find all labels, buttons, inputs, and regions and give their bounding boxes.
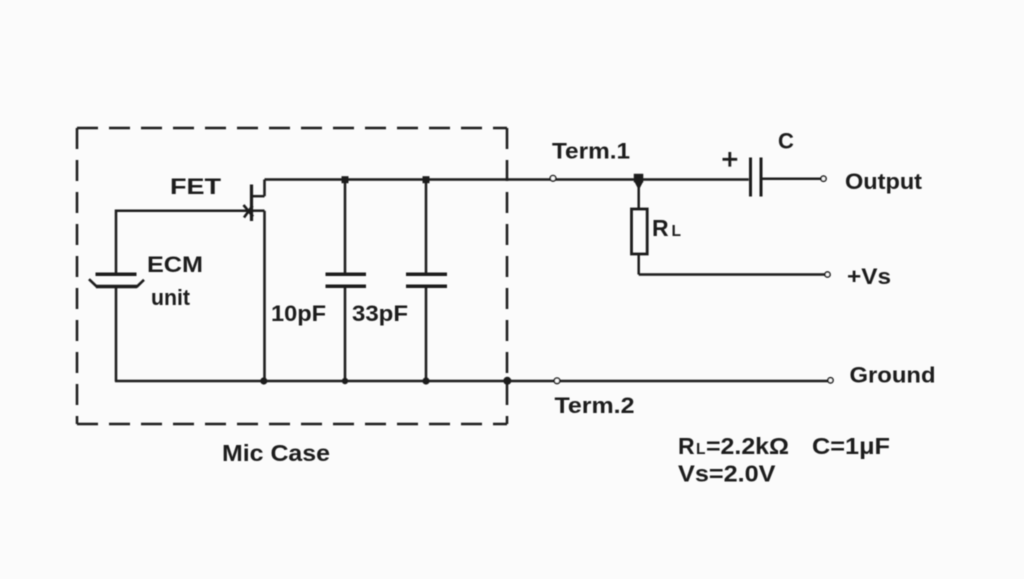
svg-text:R: R	[678, 433, 695, 459]
svg-text:R: R	[652, 215, 669, 241]
svg-text:33pF: 33pF	[352, 301, 408, 326]
svg-text:C=1μF: C=1μF	[812, 433, 890, 459]
svg-text:C: C	[778, 129, 794, 154]
svg-text:ECM: ECM	[147, 252, 203, 277]
svg-text:Term.1: Term.1	[552, 139, 630, 164]
svg-text:Ground: Ground	[850, 363, 936, 388]
svg-text:Mic Case: Mic Case	[222, 440, 330, 466]
svg-text:+Vs: +Vs	[847, 264, 891, 289]
svg-text:Term.2: Term.2	[555, 393, 635, 418]
svg-text:L: L	[696, 441, 705, 458]
svg-text:10pF: 10pF	[271, 301, 326, 326]
svg-text:Vs=2.0V: Vs=2.0V	[678, 461, 776, 487]
svg-text:=2.2kΩ: =2.2kΩ	[706, 433, 789, 459]
svg-text:Output: Output	[845, 169, 923, 194]
svg-text:FET: FET	[170, 174, 222, 199]
svg-text:L: L	[672, 223, 681, 240]
svg-text:unit: unit	[151, 285, 191, 310]
